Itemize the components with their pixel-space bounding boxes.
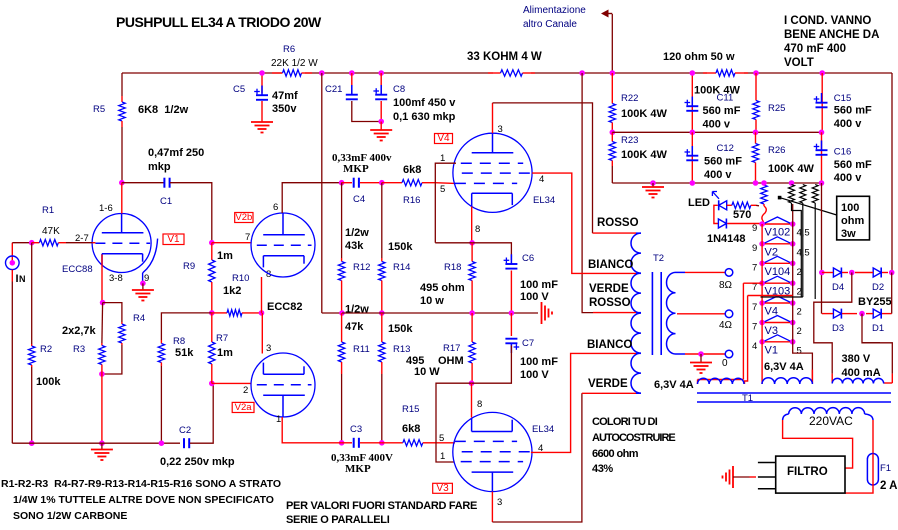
wire VERDE lead xyxy=(582,392,636,394)
wire rail left end down to R5 xyxy=(121,73,123,96)
resistor R11 47k xyxy=(341,313,343,342)
node R9 R7 R10 xyxy=(209,310,215,316)
node C11 bottom xyxy=(690,130,696,136)
svg-text:ECC82: ECC82 xyxy=(267,301,302,313)
ground C5 xyxy=(251,121,273,123)
svg-text:120 ohm 50 w: 120 ohm 50 w xyxy=(663,51,735,63)
node R10 right cathode V2 xyxy=(259,310,265,316)
node C5 on rail xyxy=(259,70,265,76)
svg-text:R14: R14 xyxy=(393,262,410,273)
svg-text:3-8: 3-8 xyxy=(109,273,123,284)
capacitor C15 560mF xyxy=(821,93,823,103)
wire V3 pin1 xyxy=(436,383,472,462)
wire heater right column xyxy=(792,204,794,342)
svg-text:100K 4W: 100K 4W xyxy=(621,149,667,161)
heater V2 xyxy=(762,243,793,245)
svg-text:R1: R1 xyxy=(42,205,54,216)
transformer T2 primary winding xyxy=(631,233,641,393)
resistor 120 ohm 50 w on rail xyxy=(703,72,716,74)
resistor R7 1m xyxy=(211,313,213,342)
node C15 bottom xyxy=(819,130,825,136)
svg-text:1N4148: 1N4148 xyxy=(707,233,746,245)
resistor R12 43k xyxy=(341,258,343,262)
transformer T1 winding1 6,3V xyxy=(698,378,745,384)
wire C21 C8 bottoms to ground xyxy=(352,101,381,122)
svg-text:AUTOCOSTRUIRE: AUTOCOSTRUIRE xyxy=(592,432,675,444)
svg-text:1m: 1m xyxy=(217,250,233,262)
node V4 cathode xyxy=(469,240,475,246)
node R22 R23 junction xyxy=(610,130,616,136)
wire cathode bus xyxy=(342,312,538,314)
triode V2a ECC82b xyxy=(251,353,315,417)
svg-text:D1: D1 xyxy=(872,323,884,334)
wire R3 branch xyxy=(101,303,104,343)
svg-text:100 V: 100 V xyxy=(520,369,549,381)
svg-text:ROSSO: ROSSO xyxy=(589,297,631,309)
svg-text:8Ω: 8Ω xyxy=(719,280,733,291)
svg-text:R6: R6 xyxy=(283,44,295,55)
wire V4 pin1 g3 xyxy=(435,163,456,243)
box FILTRO xyxy=(776,456,845,493)
svg-text:R15: R15 xyxy=(402,404,419,415)
wire C12 column xyxy=(691,132,693,183)
node V3 cathode xyxy=(469,380,475,386)
wire 4 ohm tap xyxy=(677,313,725,315)
capacitor C8 100mf xyxy=(380,85,382,95)
svg-text:1: 1 xyxy=(276,414,281,425)
wire R1 to V1 grid xyxy=(66,242,92,244)
node R12 bottom xyxy=(339,310,345,316)
svg-text:380 V: 380 V xyxy=(842,353,871,365)
wire chain right column to winding2 right xyxy=(793,342,813,384)
capacitor C16 560mF xyxy=(821,141,823,151)
diode 1N4148 xyxy=(718,219,726,228)
pentode V4 EL34 xyxy=(453,133,532,212)
svg-text:9: 9 xyxy=(752,223,757,234)
svg-text:R18: R18 xyxy=(444,262,461,273)
svg-text:BENE ANCHE DA: BENE ANCHE DA xyxy=(784,29,879,41)
svg-text:2x2,7k: 2x2,7k xyxy=(62,325,97,337)
capacitor C7 100mF xyxy=(510,313,512,336)
node V1 plate junction xyxy=(119,180,125,186)
wire heater left column xyxy=(761,224,763,342)
svg-text:R11: R11 xyxy=(353,344,370,355)
svg-text:1: 1 xyxy=(440,153,445,164)
heater V4 xyxy=(762,302,793,304)
svg-text:51k: 51k xyxy=(175,347,194,359)
resistor R23 100K 4W xyxy=(611,132,613,141)
svg-text:F1: F1 xyxy=(880,463,891,474)
annotation pointer to 100ohm box xyxy=(778,196,782,200)
svg-text:7: 7 xyxy=(752,322,757,333)
T2 core xyxy=(651,272,653,355)
diode D2 xyxy=(873,268,881,277)
svg-text:6: 6 xyxy=(273,202,278,213)
heater V103 xyxy=(762,282,793,284)
svg-text:2 A: 2 A xyxy=(880,480,897,492)
svg-text:PUSHPULL EL34 A TRIODO 20W: PUSHPULL EL34 A TRIODO 20W xyxy=(116,14,322,30)
wire R12 column xyxy=(341,183,343,258)
capacitor C21 xyxy=(351,85,353,95)
svg-text:C4: C4 xyxy=(353,194,365,205)
node V1 cathode xyxy=(100,300,106,306)
svg-text:V4: V4 xyxy=(437,133,450,144)
resistor black 100ohm A xyxy=(789,185,795,204)
svg-text:PER VALORI FUORI STANDARD FARE: PER VALORI FUORI STANDARD FARE xyxy=(286,500,477,512)
resistor black 100ohm C xyxy=(812,185,818,204)
node R25 bottom xyxy=(753,130,759,136)
svg-text:1: 1 xyxy=(440,451,445,462)
svg-text:N: N xyxy=(19,274,26,284)
svg-text:150k: 150k xyxy=(388,323,413,335)
svg-text:V2b: V2b xyxy=(235,212,252,223)
svg-text:6600 ohm: 6600 ohm xyxy=(592,448,639,460)
svg-text:8: 8 xyxy=(477,399,482,410)
resistor R2 100k xyxy=(31,344,33,346)
wire black segment near bridge xyxy=(862,342,880,344)
wire V4 cathode pin8 xyxy=(471,207,473,243)
svg-text:ohm: ohm xyxy=(841,215,864,227)
capacitor C3 0,33mF xyxy=(353,438,355,448)
svg-text:350v: 350v xyxy=(272,103,297,115)
svg-text:0,1 630 mkp: 0,1 630 mkp xyxy=(393,111,456,123)
svg-text:400 v: 400 v xyxy=(704,169,732,181)
svg-text:R17: R17 xyxy=(443,343,460,354)
svg-text:1-6: 1-6 xyxy=(99,203,113,214)
node C8 on rail xyxy=(378,70,384,76)
resistor 570 xyxy=(727,204,732,206)
svg-text:D3: D3 xyxy=(832,323,844,334)
svg-text:100k: 100k xyxy=(36,376,61,388)
svg-text:7: 7 xyxy=(752,262,757,273)
wire B+ drop to T2 center tap VERDE ROSSO xyxy=(582,73,593,313)
node secondary ground xyxy=(698,351,704,357)
resistor black 100ohm B xyxy=(800,185,806,204)
resistor 33 KOHM 4W on rail xyxy=(488,72,501,74)
T1 core xyxy=(697,392,891,394)
wire grid wire xyxy=(12,242,29,244)
capacitor C11 560mF xyxy=(691,97,693,107)
svg-text:C15: C15 xyxy=(834,93,851,104)
svg-text:ROSSO: ROSSO xyxy=(597,217,639,229)
resistor R3 xyxy=(101,343,103,346)
svg-text:400 v: 400 v xyxy=(834,118,862,130)
wire V2a plate pin1 down xyxy=(282,417,341,443)
node rail x582 xyxy=(579,70,585,76)
box label V3 xyxy=(433,483,453,493)
svg-text:0,22 250v mkp: 0,22 250v mkp xyxy=(160,456,235,468)
node R8 ground xyxy=(159,440,165,446)
svg-text:3: 3 xyxy=(498,124,503,135)
wire 570 to squiggle xyxy=(756,204,759,207)
wire V2b cathode pin8 xyxy=(261,277,263,313)
svg-text:150k: 150k xyxy=(388,241,413,253)
svg-text:560 mF: 560 mF xyxy=(834,159,872,171)
wire AC2 from winding3 right xyxy=(862,314,892,374)
svg-text:1k2: 1k2 xyxy=(223,285,241,297)
svg-text:R4: R4 xyxy=(133,313,145,324)
wire grid to V2b xyxy=(212,242,252,244)
wire winding1 feed to V103 row xyxy=(743,282,762,284)
svg-text:R10: R10 xyxy=(232,273,249,284)
resistor R1 47K xyxy=(32,242,40,244)
svg-text:6,3V 4A: 6,3V 4A xyxy=(764,361,804,373)
svg-text:EL34: EL34 xyxy=(533,195,555,206)
svg-text:220VAC: 220VAC xyxy=(809,414,853,428)
wire input to grid wire xyxy=(11,243,13,263)
svg-text:470 mF 400: 470 mF 400 xyxy=(784,43,846,55)
node R2 branch xyxy=(29,240,35,246)
triode V2b ECC82a xyxy=(251,213,315,277)
wire black horizontal xyxy=(761,296,803,298)
node C3 right xyxy=(379,440,385,446)
wire C11 column xyxy=(691,73,693,132)
transformer T1 primary 220VAC xyxy=(789,408,865,414)
node R3 R4 join xyxy=(99,371,105,377)
wire C1 to V2b grid xyxy=(170,183,212,243)
node C3 left xyxy=(339,440,345,446)
wire R4 bottom joins R3 xyxy=(102,345,122,374)
resistor hum 100ohm path xyxy=(763,183,765,185)
wire R8 to ground bus xyxy=(160,366,162,443)
svg-text:47k: 47k xyxy=(345,321,364,333)
svg-text:FILTRO: FILTRO xyxy=(787,466,828,478)
node ground bus R3 xyxy=(99,440,105,446)
wire node to R8 xyxy=(161,313,211,340)
heater V102 xyxy=(762,223,793,225)
wire red squiggle xyxy=(762,206,766,226)
wire C2 to V2a grid node xyxy=(190,383,213,443)
wire V1 grid pin 2-7 lead xyxy=(92,242,95,244)
wire black C down xyxy=(814,203,816,299)
capacitor C2 0,22 xyxy=(183,438,185,448)
capacitor C12 560mF xyxy=(691,146,693,156)
svg-text:1m: 1m xyxy=(217,347,233,359)
wire ROSSO lead xyxy=(593,232,637,234)
svg-text:570: 570 xyxy=(733,209,751,221)
triode V1 ECC88 xyxy=(92,214,151,273)
wire R16 to V4 grid xyxy=(435,182,455,185)
ground C8 xyxy=(370,129,392,131)
svg-text:R26: R26 xyxy=(768,145,785,156)
transformer T1 winding3 380V xyxy=(832,378,884,383)
wire V1 cathode pin 3-8 xyxy=(101,255,103,303)
terminal 4 ohm xyxy=(725,310,733,318)
wire midline xyxy=(612,131,821,133)
capacitor C6 100mF xyxy=(510,254,512,264)
svg-text:560 mF: 560 mF xyxy=(834,105,872,117)
svg-text:R7: R7 xyxy=(216,333,228,344)
shield arc pin 9 of V1 xyxy=(143,239,158,273)
svg-text:R25: R25 xyxy=(768,103,785,114)
node bridge row1 mid xyxy=(849,270,855,276)
svg-text:C21: C21 xyxy=(325,84,342,95)
svg-text:4: 4 xyxy=(752,341,757,352)
svg-text:47mf: 47mf xyxy=(272,90,298,102)
node rail x322 xyxy=(319,70,325,76)
node rail x612 xyxy=(610,70,616,76)
svg-text:43k: 43k xyxy=(345,240,364,252)
resistor R4 xyxy=(121,322,123,324)
svg-text:V3: V3 xyxy=(436,483,449,494)
svg-text:C12: C12 xyxy=(717,143,734,154)
wire 0 tap xyxy=(676,353,686,355)
wire elbow to cathode bus xyxy=(322,312,342,314)
wire B+ rail xyxy=(122,72,282,74)
input connector IN xyxy=(6,256,20,270)
resistor R10 1k2 xyxy=(212,312,227,314)
svg-text:mkp: mkp xyxy=(148,161,171,173)
box 100 ohm 3w xyxy=(837,196,870,240)
node bridge row2 mid xyxy=(859,311,865,317)
svg-text:C5: C5 xyxy=(233,84,245,95)
svg-text:560 mF: 560 mF xyxy=(703,105,741,117)
svg-text:D4: D4 xyxy=(832,282,844,293)
node C12 bottom xyxy=(690,180,696,186)
svg-text:100K 4W: 100K 4W xyxy=(694,85,740,97)
svg-text:R13: R13 xyxy=(393,344,410,355)
svg-text:100 V: 100 V xyxy=(520,291,549,303)
node R14 bottom xyxy=(379,310,385,316)
wire R11 bottom to V2a plate node xyxy=(341,374,343,443)
wire R14 column xyxy=(381,183,383,258)
node R25 rail xyxy=(753,70,759,76)
wire V3 plate pin3 to VERDE xyxy=(491,492,493,522)
capacitor C5 47mf 350v xyxy=(261,86,263,96)
resistor R16 6k8 xyxy=(382,182,402,184)
wire V1 plate pin 1-6 xyxy=(121,183,123,214)
svg-text:4Ω: 4Ω xyxy=(719,320,733,331)
wire cathode to C6 xyxy=(472,243,511,260)
svg-text:6k8: 6k8 xyxy=(402,423,420,435)
svg-text:3w: 3w xyxy=(841,228,856,240)
wire R5 to V1 plate node xyxy=(121,127,123,183)
svg-text:R5: R5 xyxy=(93,104,105,115)
svg-text:C1: C1 xyxy=(160,196,172,207)
LED xyxy=(719,201,727,210)
svg-text:2: 2 xyxy=(797,307,802,318)
svg-text:C16: C16 xyxy=(834,147,851,158)
diode D3 xyxy=(833,309,841,318)
wire 220 left to filtro xyxy=(783,420,853,468)
box label V2b xyxy=(235,213,253,223)
wire VERDE ROSSO lead xyxy=(593,312,636,314)
svg-text:VERDE: VERDE xyxy=(589,283,629,295)
svg-text:V1: V1 xyxy=(765,344,778,356)
wire V2b plate pin6 to C4 node xyxy=(282,183,341,213)
svg-text:560 mF: 560 mF xyxy=(704,156,742,168)
node V2b grid xyxy=(209,240,215,246)
svg-text:R9: R9 xyxy=(183,261,195,272)
wire 1N4148 to heater chain xyxy=(727,223,762,225)
svg-text:C7: C7 xyxy=(522,338,534,349)
svg-text:LED: LED xyxy=(688,197,710,209)
wire C5 stem xyxy=(261,73,263,93)
box label V4 xyxy=(435,134,453,144)
svg-text:R23: R23 xyxy=(621,135,638,146)
capacitor C4 0,33mF xyxy=(353,178,355,188)
svg-text:VOLT: VOLT xyxy=(784,57,814,69)
wire R23 bottom corner to bottom line xyxy=(611,166,613,183)
wire C21 stem xyxy=(351,73,353,93)
svg-text:10 w: 10 w xyxy=(420,295,444,307)
svg-text:6,3V 4A: 6,3V 4A xyxy=(654,379,694,391)
wire V1 plate to C1 xyxy=(122,182,164,184)
wire C16 column xyxy=(821,132,823,183)
svg-text:100: 100 xyxy=(841,202,859,214)
svg-text:6K8 1/2w: 6K8 1/2w xyxy=(138,104,189,116)
svg-text:100 mF: 100 mF xyxy=(520,279,558,291)
wire R15 to V3 grid xyxy=(435,442,455,444)
node bridge row1 left xyxy=(819,270,825,276)
svg-text:V2a: V2a xyxy=(235,402,253,413)
svg-text:5: 5 xyxy=(439,433,444,444)
box label V1 xyxy=(163,234,184,245)
svg-text:C3: C3 xyxy=(350,424,362,435)
svg-text:3: 3 xyxy=(497,497,502,508)
wire V2a cathode pin3 xyxy=(261,313,263,354)
svg-text:1/2w: 1/2w xyxy=(345,227,369,239)
svg-text:R3: R3 xyxy=(73,344,85,355)
wire R2 branch down xyxy=(31,243,33,344)
node black resistor A xyxy=(789,180,795,186)
svg-text:43%: 43% xyxy=(592,463,613,475)
ground V1 pin9 xyxy=(132,289,154,291)
svg-text:V1: V1 xyxy=(167,234,180,245)
wire 8 ohm tap xyxy=(676,271,686,273)
wire V4 plate pin3 elbow to ROSSO xyxy=(492,103,494,133)
svg-text:OHM: OHM xyxy=(438,355,464,367)
wire V3 pin4 to BIANCO2 xyxy=(531,451,552,453)
wire C5 to ground xyxy=(261,101,263,122)
svg-text:MKP: MKP xyxy=(345,463,371,475)
svg-text:100K 4W: 100K 4W xyxy=(768,163,814,175)
svg-text:SERIE O PARALLELI: SERIE O PARALLELI xyxy=(286,514,390,526)
resistor R6 22K on rail xyxy=(272,72,283,74)
node R2 ground xyxy=(29,440,35,446)
svg-text:T2: T2 xyxy=(653,253,664,264)
svg-text:R12: R12 xyxy=(353,262,370,273)
svg-text:R1-R2-R3 R4-R7-R9-R13-R14-R15: R1-R2-R3 R4-R7-R9-R13-R14-R15-R16 SONO A… xyxy=(1,478,281,490)
capacitor C1 0,47mf xyxy=(163,178,165,188)
wire chain left column to winding2 xyxy=(761,342,763,384)
wire black B down xyxy=(802,203,804,297)
wire input sleeve to ground bus xyxy=(11,282,13,444)
svg-text:8: 8 xyxy=(475,224,480,235)
resistor R8 51k xyxy=(160,340,162,344)
terminal 8 ohm xyxy=(725,269,733,277)
wire BIANCO lead xyxy=(593,272,636,274)
svg-text:2: 2 xyxy=(797,326,802,337)
svg-text:495 ohm: 495 ohm xyxy=(420,282,465,294)
svg-text:0: 0 xyxy=(722,358,728,369)
svg-text:R2: R2 xyxy=(40,344,52,355)
svg-text:Alimentazione: Alimentazione xyxy=(523,5,586,16)
wire V3 cathode pin8 xyxy=(471,383,473,417)
node V2a grid xyxy=(209,381,215,387)
node R18 bottom xyxy=(469,310,475,316)
pentode V3 EL34 xyxy=(453,412,532,491)
node R26 bottom xyxy=(753,180,759,186)
ground secondary xyxy=(690,362,712,364)
heater V3 xyxy=(762,322,793,324)
svg-text:6k8: 6k8 xyxy=(403,164,421,176)
wire R26 bottom xyxy=(755,166,757,183)
wire to V2a grid xyxy=(212,382,252,384)
svg-text:MKP: MKP xyxy=(343,163,369,175)
svg-text:7: 7 xyxy=(245,232,250,243)
svg-text:47K: 47K xyxy=(42,226,60,237)
